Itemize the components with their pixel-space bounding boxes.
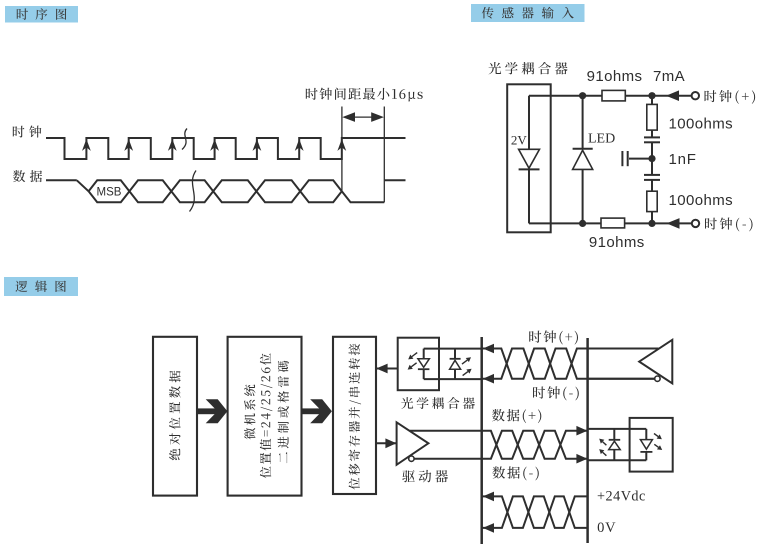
svg-text:LED: LED bbox=[588, 132, 615, 147]
svg-text:7mA: 7mA bbox=[653, 68, 685, 85]
svg-text:0V: 0V bbox=[597, 520, 616, 536]
svg-text:91ohms: 91ohms bbox=[589, 234, 645, 251]
svg-text:MSB: MSB bbox=[97, 187, 122, 199]
svg-text:100ohms: 100ohms bbox=[669, 192, 734, 209]
svg-text:2V: 2V bbox=[511, 133, 528, 148]
svg-text:100ohms: 100ohms bbox=[669, 116, 734, 133]
svg-text:91ohms: 91ohms bbox=[587, 68, 643, 85]
svg-text:+24Vdc: +24Vdc bbox=[597, 489, 646, 505]
svg-text:1nF: 1nF bbox=[669, 151, 697, 168]
